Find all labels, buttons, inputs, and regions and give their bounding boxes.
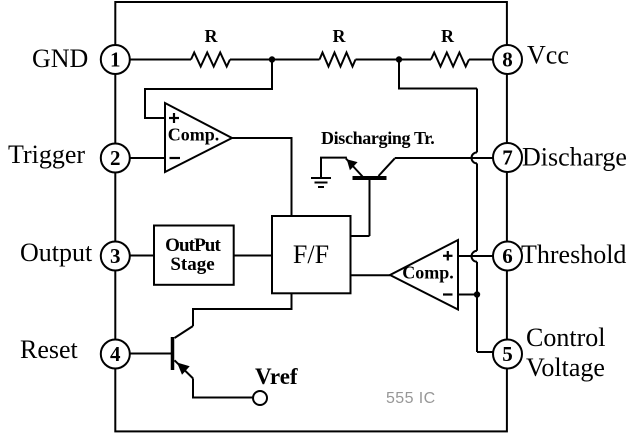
wire vertical control bus x=477	[476, 89, 478, 153]
svg-text:8: 8	[502, 48, 513, 72]
svg-text:Vcc: Vcc	[527, 41, 569, 70]
resistor R2	[320, 53, 356, 67]
wire output stage to F/F	[234, 255, 272, 257]
terminal Vref circle	[253, 391, 267, 405]
wire pin3 to output stage	[130, 255, 154, 257]
wire Q1 collector to pin7	[395, 157, 493, 159]
op-amp U2 comparator triangle	[390, 240, 458, 310]
svg-text:1: 1	[110, 48, 121, 72]
svg-text:Voltage: Voltage	[526, 353, 605, 382]
svg-text:Output: Output	[20, 238, 93, 267]
ground	[311, 177, 331, 179]
wire U2 plus input to pin6	[458, 255, 493, 257]
wire U1 output to F/F	[232, 138, 292, 216]
svg-text:Reset: Reset	[20, 335, 79, 364]
transistor Q1 emitter diagonal	[346, 159, 363, 177]
svg-text:Stage: Stage	[170, 254, 214, 275]
wire	[476, 163, 478, 250]
U1 minus sign	[170, 157, 181, 159]
block F/F	[272, 216, 351, 293]
wire F/F to comparator U2 output	[351, 274, 391, 276]
svg-text:Discharging Tr.: Discharging Tr.	[321, 128, 434, 148]
svg-text:555 IC: 555 IC	[386, 390, 436, 407]
wire Q1 emitter to ground	[321, 158, 346, 177]
pin 1 circle	[101, 45, 130, 74]
svg-text:3: 3	[110, 244, 121, 268]
wire R1 to R2	[230, 59, 320, 61]
wire	[476, 262, 478, 352]
U1 plus sign	[169, 113, 179, 123]
op-amp U1 comparator triangle	[165, 103, 232, 172]
wire Q2 emitter to Vref	[193, 378, 253, 397]
wire R3 to pin8	[469, 59, 493, 61]
svg-text:R: R	[333, 26, 347, 46]
U2 minus sign	[443, 293, 453, 295]
transistor Q2 base bar	[171, 337, 175, 370]
transistor Q2 collector diagonal	[175, 326, 194, 338]
wire node B down-right to control bus	[399, 60, 477, 89]
svg-text:Control: Control	[526, 323, 605, 352]
wire pin2 to comparator U1 minus input	[130, 157, 165, 159]
svg-text:Threshold: Threshold	[521, 240, 626, 269]
svg-text:R: R	[205, 26, 219, 46]
pin 5 circle	[493, 340, 522, 369]
pin 4 circle	[101, 340, 130, 369]
svg-text:Comp.: Comp.	[168, 125, 220, 145]
wire F/F bottom to transistor Q2 collector	[193, 293, 292, 326]
svg-text:Trigger: Trigger	[8, 140, 85, 169]
resistor R1	[191, 53, 230, 67]
arrow Q1 emitter	[347, 159, 358, 170]
junction node A dot	[269, 56, 275, 62]
wire node A down-left to comparator U1 plus input	[145, 60, 272, 119]
pin 2 circle	[101, 144, 130, 173]
svg-text:6: 6	[502, 244, 513, 268]
arrow Q2 emitter	[177, 363, 190, 375]
transistor Q1 discharging: base wire	[369, 179, 371, 236]
transistor Q1 collector diagonal	[379, 158, 395, 176]
wire U2 minus input to bus junction	[458, 294, 477, 296]
svg-text:OutPut: OutPut	[165, 235, 221, 256]
junction node C dot	[474, 291, 480, 297]
wire F/F to discharging transistor base	[351, 235, 370, 237]
transistor Q2 emitter diagonal	[175, 360, 194, 378]
pin 8 circle	[493, 45, 522, 74]
svg-text:Discharge: Discharge	[522, 143, 627, 172]
transistor Q1 base bar	[353, 176, 387, 180]
wire bus to pin5	[477, 351, 493, 353]
resistor R3	[431, 53, 469, 67]
wire R2 to R3	[356, 59, 432, 61]
pin 3 circle	[101, 242, 130, 271]
wire pin1 to R1	[130, 59, 191, 61]
svg-text:5: 5	[502, 342, 513, 366]
svg-text:Vref: Vref	[255, 364, 298, 389]
svg-text:F/F: F/F	[293, 240, 329, 269]
junction node B dot	[396, 56, 402, 62]
wire pin4 to Q2 base	[130, 353, 171, 355]
block OutPut Stage	[154, 226, 234, 285]
wire hop over threshold wire	[472, 251, 477, 262]
svg-text:7: 7	[502, 146, 513, 170]
pin 7 circle	[493, 143, 522, 172]
svg-text:R: R	[441, 26, 455, 46]
U2 plus sign	[443, 251, 453, 261]
wire hop over discharge wire	[472, 152, 478, 163]
svg-text:GND: GND	[32, 44, 88, 73]
svg-text:Comp.: Comp.	[402, 263, 454, 283]
IC boundary rectangle	[115, 2, 507, 431]
svg-text:4: 4	[110, 342, 121, 366]
pin 6 circle	[493, 242, 522, 271]
svg-text:2: 2	[110, 146, 121, 170]
